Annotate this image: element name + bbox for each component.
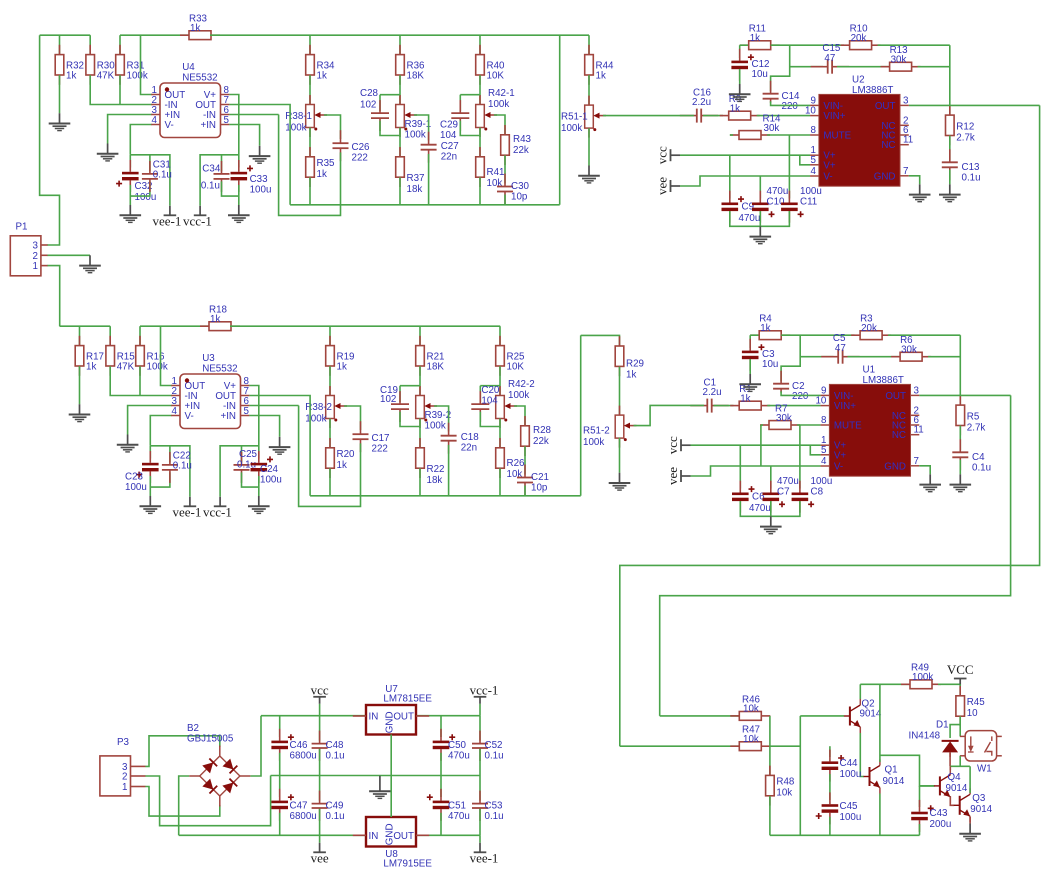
svg-text:18K: 18K — [407, 71, 425, 82]
svg-text:100k: 100k — [561, 123, 582, 134]
wire R22 to out rail — [419, 468, 421, 496]
svg-text:2.7k: 2.7k — [956, 132, 975, 143]
wire C19 top link — [400, 385, 420, 387]
capacitor C30 10p — [497, 174, 513, 205]
svg-text:18K: 18K — [427, 362, 445, 373]
svg-text:0.1u: 0.1u — [201, 181, 220, 192]
ground under C23 — [140, 496, 162, 513]
svg-text:C4: C4 — [972, 452, 985, 463]
wire rail to R36 — [399, 35, 401, 54]
wire rail to R40 — [479, 35, 481, 54]
label C20 value — [481, 385, 500, 406]
svg-text:R51-1: R51-1 — [561, 112, 588, 123]
wire R29 to R51-2 — [619, 367, 621, 415]
svg-text:W1: W1 — [977, 764, 992, 775]
wire C20 bottom lead — [480, 412, 500, 427]
wire C32 C31 bottom link — [130, 181, 150, 196]
label W1 — [977, 764, 992, 775]
ground at pin5 U4 — [249, 146, 271, 163]
wire vee stub — [319, 835, 321, 843]
svg-text:vcc: vcc — [655, 146, 670, 164]
wire pin5 to ground — [249, 416, 279, 437]
diode B2 top-left — [202, 758, 217, 773]
ground under R17 — [69, 404, 91, 421]
svg-text:100k: 100k — [912, 672, 933, 683]
wire C6 column — [739, 445, 741, 488]
wire V+ net horizontal — [200, 155, 239, 206]
svg-text:GND: GND — [384, 823, 395, 845]
wire C26 to pin6 loop — [279, 115, 341, 216]
ground U2 pin7 — [909, 184, 931, 201]
svg-text:1k: 1k — [86, 362, 96, 373]
svg-text:V+: V+ — [823, 160, 836, 171]
wire input rail to R34 — [40, 34, 91, 36]
svg-text:V-: V- — [823, 172, 832, 183]
wire U2 OUT to protection — [620, 105, 1040, 746]
svg-text:GND: GND — [884, 461, 906, 472]
wire P1 pin3 to ch1 input — [40, 35, 60, 245]
svg-text:9014: 9014 — [883, 776, 905, 787]
wire R45 branch to D1 — [950, 725, 960, 738]
label C15 — [822, 43, 841, 64]
svg-text:GND: GND — [384, 711, 395, 733]
svg-text:C21: C21 — [531, 472, 549, 483]
wire R17 to ground — [79, 366, 81, 404]
svg-text:vee-1: vee-1 — [152, 213, 181, 228]
wire R13 right — [918, 66, 950, 68]
wire R16 to -IN net — [139, 366, 141, 395]
wire C29 top lead — [459, 95, 461, 111]
wire C53 bottom — [479, 809, 481, 835]
svg-text:100u: 100u — [135, 192, 157, 203]
wire vcc rail right — [416, 715, 480, 717]
svg-text:1k: 1k — [730, 103, 740, 114]
wire vcc row to V+ pin1 — [691, 444, 821, 446]
resistor R46 10k — [730, 694, 770, 720]
wire R9 to VIN+ pin10 — [757, 115, 811, 117]
svg-text:100u: 100u — [125, 482, 147, 493]
svg-text:vee: vee — [311, 850, 329, 865]
svg-text:4: 4 — [810, 166, 816, 177]
label C6 — [749, 492, 771, 515]
wire vee row to V- pin4 — [691, 466, 821, 476]
capacitor C53 0.1u — [472, 791, 488, 821]
relay W1 — [960, 731, 1002, 761]
resistor R21 — [416, 336, 445, 376]
capacitor C44 100u — [822, 750, 845, 782]
wire R46 R47 R48 junction column — [769, 716, 771, 775]
svg-text:vee-1: vee-1 — [470, 850, 499, 865]
label C18 value — [461, 432, 480, 453]
wire 0V mid rail — [271, 775, 480, 777]
wire R5 to C4 — [959, 426, 961, 451]
capacitor C46 6800u — [271, 729, 294, 761]
label C48 — [326, 740, 345, 762]
capacitor C17 222 — [353, 421, 369, 452]
supply vcc U1 — [665, 436, 691, 454]
diode D1 IN4148 — [942, 741, 959, 757]
label C17 value — [372, 433, 390, 454]
label C43 — [930, 808, 952, 830]
svg-text:MUTE: MUTE — [834, 421, 862, 432]
svg-text:C34: C34 — [202, 164, 221, 175]
svg-text:10p: 10p — [531, 483, 548, 494]
svg-text:100u: 100u — [260, 475, 282, 486]
capacitor C8 100u — [792, 481, 815, 513]
capacitor C9 470u — [722, 191, 745, 223]
svg-text:100k: 100k — [583, 437, 604, 448]
svg-text:1: 1 — [32, 261, 37, 272]
ground under R51-2 — [609, 473, 631, 490]
label C31 — [153, 159, 172, 180]
supply vee-1 U3 — [172, 497, 201, 520]
wire out rail net out-A — [290, 204, 560, 206]
capacitor C16 2.2u — [680, 109, 718, 123]
svg-text:VCC: VCC — [947, 662, 974, 677]
capacitor C31 0.1u — [142, 161, 158, 192]
svg-text:V-: V- — [165, 120, 174, 131]
svg-text:R28: R28 — [533, 425, 552, 436]
wire vee row to V- pin4 — [680, 176, 810, 186]
wire R39-2 to R22 — [419, 419, 421, 448]
svg-text:C29: C29 — [440, 120, 458, 131]
svg-text:9014: 9014 — [860, 709, 882, 720]
ground under C13 — [939, 184, 961, 201]
svg-text:VIN+: VIN+ — [834, 401, 856, 412]
wire R39-1 wiper to C27 — [414, 115, 429, 141]
svg-text:470u: 470u — [749, 503, 771, 514]
wire Q1 collector column — [879, 684, 881, 762]
svg-text:100u: 100u — [840, 812, 862, 823]
wire rail to R19 — [329, 326, 331, 345]
wire C7 bottom — [770, 501, 772, 516]
wire R31 to -IN net — [119, 75, 121, 104]
wire C53 top — [479, 776, 481, 801]
wire VCC to R45 — [959, 684, 961, 696]
wire vcc row to V+ pin1 — [680, 154, 810, 156]
wire R49 to VCC — [938, 683, 960, 685]
wire pin4 V- net — [130, 125, 151, 155]
wire R3 right — [888, 334, 960, 336]
resistor R49 100k — [901, 663, 941, 689]
op-amp U4 NE5532 — [151, 62, 229, 138]
label C19 value — [380, 385, 398, 405]
label C24 — [260, 464, 282, 486]
wire pin7 OUT down — [249, 396, 310, 496]
wire R30 to -IN pin2 — [90, 75, 152, 104]
ground under C7 — [760, 516, 782, 533]
capacitor C3 10u — [742, 339, 765, 371]
svg-text:1k: 1k — [750, 33, 760, 44]
wire R42-1 wiper to R43 — [494, 115, 505, 135]
svg-text:C33: C33 — [250, 174, 269, 185]
label C49 — [326, 801, 345, 823]
wire R47 row — [620, 745, 740, 747]
svg-text:Q3: Q3 — [972, 793, 986, 804]
svg-text:100k: 100k — [285, 123, 306, 134]
wire vee rail right — [416, 834, 480, 836]
label C14 — [782, 91, 801, 112]
ground at P1 pin2 — [79, 255, 101, 272]
potentiometer R51-1 100k — [561, 96, 606, 138]
resistor R19 — [326, 336, 355, 376]
wire C12 bottom lead — [739, 69, 741, 84]
wire C52 bottom — [479, 749, 481, 776]
capacitor C4 0.1u — [952, 439, 968, 470]
svg-text:3: 3 — [914, 385, 920, 396]
wire U2 GND pin7 — [909, 176, 920, 185]
svg-text:P1: P1 — [16, 222, 28, 233]
svg-text:0.1u: 0.1u — [972, 463, 991, 474]
wire R51-2 wiper to C1 — [634, 405, 705, 425]
svg-text:2.2u: 2.2u — [692, 97, 711, 108]
svg-text:1k: 1k — [337, 362, 347, 373]
capacitor C10 470u — [752, 191, 775, 223]
ground under C24 — [248, 496, 270, 513]
label C51 — [448, 801, 470, 823]
wire R21 to R39-2 — [419, 366, 421, 395]
wire vee-1 stub — [479, 835, 481, 843]
svg-text:1: 1 — [122, 782, 127, 793]
wire D1 to Q4 node — [949, 752, 951, 766]
capacitor C2 220 — [773, 371, 789, 393]
svg-text:22k: 22k — [513, 145, 529, 156]
label C2 — [792, 381, 809, 402]
wire R36 to R39-1 — [399, 75, 401, 104]
resistor R18 1k — [200, 305, 240, 331]
svg-text:OUT: OUT — [885, 391, 906, 402]
capacitor C43 200u — [911, 800, 934, 832]
wire rail down to out rail — [559, 35, 561, 205]
svg-text:100k: 100k — [405, 130, 426, 141]
wire pin8 V+ net — [229, 95, 239, 168]
potentiometer R38-2 100k — [305, 386, 347, 428]
wire R48 to bottom rail — [769, 796, 771, 835]
svg-text:R26: R26 — [507, 458, 526, 469]
label C46 — [290, 740, 317, 762]
wire C32 top lead — [129, 155, 131, 168]
wire pin7 OUT down — [229, 105, 290, 205]
svg-text:18k: 18k — [427, 475, 443, 486]
svg-text:104: 104 — [440, 130, 457, 141]
svg-text:R35: R35 — [317, 158, 336, 169]
svg-text:102: 102 — [380, 394, 396, 405]
wire R38-2 wiper to C17 — [344, 406, 361, 430]
wire R44 top lead — [588, 35, 590, 54]
svg-text:100k: 100k — [147, 362, 168, 373]
label C47 — [290, 801, 317, 823]
wire C12 top lead — [739, 45, 741, 58]
label C8 — [811, 476, 833, 498]
ground under C3 — [739, 374, 761, 391]
wire R51-2 to ground — [619, 438, 621, 473]
resistor R6 30k — [891, 335, 931, 361]
wire pin6 stub — [229, 114, 278, 116]
svg-text:R22: R22 — [427, 464, 445, 475]
svg-text:V-: V- — [185, 411, 194, 422]
svg-text:vee: vee — [655, 177, 670, 195]
ground under R51-1 — [578, 166, 600, 183]
wire rail to R34 — [309, 35, 311, 54]
svg-text:R42-1: R42-1 — [488, 88, 515, 99]
wire Q4 emitter to Q3 base — [950, 796, 954, 805]
svg-text:10u: 10u — [752, 69, 768, 80]
supply vee-1 U4 — [152, 206, 181, 229]
capacitor C29 104 — [451, 100, 469, 131]
svg-text:+IN: +IN — [220, 411, 236, 422]
resistor R16 100k — [136, 336, 168, 376]
svg-text:LM7815EE: LM7815EE — [383, 693, 432, 704]
wire C19 bottom lead — [400, 412, 420, 427]
wire R33 right rail — [210, 34, 589, 36]
svg-text:3: 3 — [903, 95, 909, 106]
capacitor C11 100u — [781, 191, 804, 223]
wire C43 bottom — [919, 824, 921, 835]
wire vee rail left — [179, 834, 366, 836]
wire R46 row — [660, 715, 740, 717]
ground under C10 — [750, 226, 772, 243]
op-amp U3 NE5532 — [171, 353, 249, 429]
wire C5 row left — [800, 356, 833, 358]
wire R38-1 wiper to C26 — [324, 115, 341, 139]
wire C3 bottom lead — [749, 359, 751, 374]
svg-text:47: 47 — [824, 53, 835, 64]
wire C3 top lead — [749, 335, 751, 348]
svg-text:R48: R48 — [776, 777, 795, 788]
wire P1 pin1 to ch2 input — [48, 266, 60, 327]
transistor Q1 9014 — [864, 760, 905, 794]
resistor R47 10k — [730, 725, 770, 751]
wire P3 pin2 0V net — [145, 776, 270, 826]
svg-text:47: 47 — [835, 343, 846, 354]
connector P1 — [10, 222, 48, 276]
label C9 — [739, 202, 761, 225]
capacitor C27 22n — [421, 132, 437, 163]
svg-text:30k: 30k — [891, 55, 907, 66]
wire pin8 V+ net — [249, 386, 259, 459]
wire C13 to ground — [949, 170, 951, 185]
svg-text:104: 104 — [481, 395, 498, 406]
svg-text:470u: 470u — [448, 751, 470, 762]
svg-text:R37: R37 — [407, 173, 425, 184]
svg-text:8: 8 — [810, 125, 816, 136]
label C21 value — [531, 472, 549, 494]
svg-text:11: 11 — [914, 425, 924, 436]
wire C45 bottom — [829, 817, 831, 836]
resistor R5 2.7k — [956, 395, 985, 435]
capacitor C47 6800u — [271, 789, 294, 821]
capacitor C34 0.1u — [214, 161, 230, 192]
ground at pin3 U3 — [117, 435, 139, 452]
wire C17 to pin6 loop — [299, 406, 361, 507]
label D1 IN4148 — [909, 720, 949, 742]
capacitor C48 0.1u — [312, 731, 328, 761]
svg-text:10p: 10p — [511, 192, 528, 203]
wire C23 top lead — [149, 446, 151, 459]
svg-text:R43: R43 — [513, 134, 532, 145]
wire rail R18 left — [140, 325, 210, 327]
wire R40 to R42-1 — [479, 75, 481, 104]
ground at pin5 U3 — [269, 437, 291, 454]
wire C15 row left — [790, 66, 823, 68]
label C23 — [125, 472, 147, 494]
wire out-B to R29 — [581, 335, 620, 346]
wire R32 to ground — [59, 75, 61, 113]
resistor R32 1k — [55, 45, 84, 85]
wire R4 to R3 — [781, 334, 854, 336]
svg-text:9014: 9014 — [946, 783, 968, 794]
wire R41 to out rail — [479, 177, 481, 205]
wire feedback down — [781, 335, 800, 381]
svg-text:222: 222 — [352, 152, 368, 163]
svg-text:10k: 10k — [743, 734, 759, 745]
capacitor C5 47 — [821, 350, 859, 364]
label C29 value — [440, 120, 458, 142]
supply vee PSU — [311, 843, 329, 866]
capacitor C14 220 — [763, 81, 779, 103]
svg-text:vcc: vcc — [665, 436, 680, 454]
wire out-B up column — [580, 335, 582, 495]
wire C32 bottom to ground — [129, 185, 131, 205]
potentiometer R42-1 100k — [476, 88, 515, 137]
svg-text:0.1u: 0.1u — [326, 751, 345, 762]
transistor Q3 9014 — [954, 788, 993, 822]
ground at pin3 U4 — [97, 144, 119, 161]
ground under C32 — [120, 205, 142, 222]
svg-text:C24: C24 — [260, 464, 279, 475]
wire C19 top lead — [399, 386, 401, 402]
svg-text:U4: U4 — [182, 62, 195, 73]
resistor R22 — [416, 438, 445, 486]
wire R1 to VIN+ pin10 — [767, 405, 821, 407]
wire C20 top link — [480, 385, 500, 387]
capacitor C26 222 — [333, 130, 349, 161]
wire C46 leads — [279, 716, 281, 737]
svg-text:470u: 470u — [448, 811, 470, 822]
svg-text:2.2u: 2.2u — [703, 387, 722, 398]
wire P3 pin1 AC to bridge bottom — [145, 787, 219, 817]
svg-text:C48: C48 — [326, 740, 345, 751]
wire pin3 to ground — [108, 115, 152, 144]
wire C24 bottom to ground — [258, 476, 260, 496]
resistor R3 20k — [851, 314, 891, 340]
wire C16 to R9 — [703, 115, 723, 117]
svg-text:NC: NC — [881, 140, 895, 151]
wire R37 to out rail — [399, 177, 401, 205]
svg-text:470u: 470u — [777, 476, 799, 487]
svg-text:100u: 100u — [800, 186, 822, 197]
svg-text:220: 220 — [792, 391, 809, 402]
diode B2 top-right — [222, 759, 237, 774]
svg-text:U1: U1 — [863, 365, 876, 376]
capacitor C33 100u — [231, 160, 254, 192]
svg-text:C43: C43 — [930, 808, 949, 819]
label C22 — [173, 450, 192, 471]
wire Q2 emitter to Q1 base — [860, 733, 864, 777]
wire C1 to R1 — [714, 405, 734, 407]
svg-text:4: 4 — [821, 456, 827, 467]
wire R39-2 wiper to C18 — [434, 406, 449, 432]
potentiometer R38-1 100k — [285, 95, 327, 137]
wire vcc rail left — [261, 715, 366, 717]
wire V+ pin5 link — [800, 155, 810, 165]
wire R34 to R38-1 — [309, 75, 311, 104]
ground under C4 — [950, 474, 972, 491]
wire C21 to out rail — [524, 486, 526, 496]
svg-text:NE5532: NE5532 — [182, 73, 217, 84]
wire Q4 base lead — [920, 785, 935, 787]
svg-text:9014: 9014 — [970, 804, 992, 815]
